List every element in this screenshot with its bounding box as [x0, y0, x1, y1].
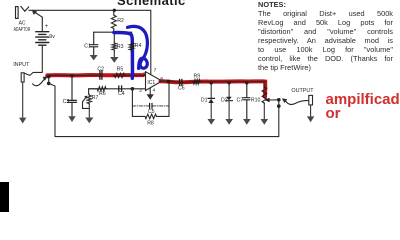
bypass wire (bottom loop to output switch) — [49, 83, 279, 136]
output jack ground — [307, 105, 314, 122]
resistor R3 — [112, 42, 116, 51]
resistor R2 — [111, 14, 116, 29]
node output feedback tap — [167, 80, 171, 84]
black corner block bottom-left — [0, 182, 9, 213]
svg-text:C3: C3 — [63, 99, 70, 105]
wire pin 2 — [89, 88, 146, 90]
diode D2 — [226, 83, 233, 119]
capacitor C1 — [90, 32, 98, 55]
battery B1 9v — [36, 17, 49, 45]
svg-text:C4: C4 — [118, 91, 125, 97]
svg-text:INPUT: INPUT — [13, 62, 30, 68]
svg-text:R9: R9 — [194, 73, 201, 79]
op-amp IC1 — [146, 72, 163, 91]
svg-text:C6: C6 — [178, 85, 185, 91]
wire op-amp output run to volume pot — [162, 81, 266, 82]
svg-text:+: + — [45, 24, 49, 30]
svg-text:C1: C1 — [84, 44, 91, 50]
ground C1 — [90, 55, 98, 60]
wire R2 to bias node — [113, 30, 115, 33]
resistor R9 — [193, 80, 201, 84]
wire bias node to R4 — [131, 32, 133, 42]
wire R3 to ground — [113, 51, 115, 57]
red highlight output signal wire — [161, 81, 266, 97]
svg-text:D1: D1 — [201, 98, 208, 104]
svg-text:R6: R6 — [99, 91, 106, 97]
wire R4 to pin3 node — [131, 51, 133, 75]
node C7 tap — [245, 81, 248, 84]
capacitor C6 — [180, 79, 182, 85]
wire R5 to pin 3 — [126, 74, 146, 76]
ground pin 4 — [147, 94, 154, 100]
AC adaptor jack — [16, 6, 29, 18]
feedback loop wires — [132, 89, 144, 117]
resistor R4 — [129, 42, 133, 51]
red annotation text amplificador — [326, 93, 400, 121]
potentiometer R10 — [262, 82, 279, 119]
blue annotation stroke bias-to-pin3 — [114, 33, 133, 79]
wire node to R3 — [113, 32, 115, 42]
svg-text:R10: R10 — [251, 97, 261, 103]
svg-text:9v: 9v — [49, 34, 55, 40]
dashed optional C5 branch — [132, 105, 169, 107]
svg-text:C2: C2 — [97, 67, 104, 73]
potentiometer R7 — [83, 94, 92, 117]
wire R6 to R7 — [89, 89, 97, 95]
capacitor C7 — [243, 83, 250, 119]
wire rail to R2 — [113, 10, 115, 14]
node feedback tap pin2 — [131, 87, 135, 91]
output jack J2 — [309, 95, 313, 105]
input jack ground — [19, 82, 26, 124]
svg-text:OUTPUT: OUTPUT — [291, 88, 314, 94]
node C3 tap — [70, 74, 73, 77]
node D1 tap — [210, 81, 213, 84]
node bias (wire C1 / R3 / R4) — [94, 31, 132, 33]
ground R3 — [110, 57, 118, 63]
input jack J1 — [21, 73, 24, 82]
svg-text:R3: R3 — [117, 44, 124, 50]
svg-text:R2: R2 — [117, 18, 124, 24]
node D2 tap — [227, 81, 230, 84]
label AC ADAPTOR — [14, 20, 31, 33]
diode D1 — [208, 83, 215, 119]
svg-text:IC1: IC1 — [147, 80, 155, 86]
battery minus wire to input jack — [25, 45, 43, 75]
input bypass switch arm — [33, 77, 48, 86]
node input (junction dots) — [47, 75, 51, 79]
pin 4 wire — [149, 88, 151, 94]
svg-text:6: 6 — [160, 76, 163, 82]
node output switch (junction dots) — [277, 98, 281, 102]
svg-text:R7: R7 — [92, 95, 99, 101]
ground C3 — [68, 116, 75, 122]
svg-text:R5: R5 — [117, 67, 124, 73]
ground D2 — [225, 119, 233, 125]
ground C7 — [243, 119, 251, 125]
output switch arm — [282, 99, 308, 105]
resistor R8 — [144, 114, 157, 119]
ground R10 — [261, 119, 269, 125]
svg-text:AC: AC — [19, 20, 26, 26]
svg-text:C7: C7 — [237, 98, 244, 104]
svg-text:3: 3 — [143, 71, 146, 77]
notes text block — [258, 0, 393, 72]
wire input node to C2 (thin, under red) — [49, 74, 99, 76]
svg-text:R8: R8 — [147, 120, 154, 126]
svg-text:R4: R4 — [135, 43, 142, 49]
blue annotation stroke loop around R4 — [128, 26, 148, 68]
node V+ rail R2 tap — [113, 9, 116, 12]
capacitor C5 — [150, 103, 152, 108]
svg-text:D2: D2 — [221, 98, 228, 104]
red highlight input signal wire — [47, 73, 143, 77]
capacitor C3 — [68, 76, 77, 116]
svg-text:C5: C5 — [148, 109, 155, 115]
ground D1 — [208, 119, 216, 125]
resistor R6 — [96, 87, 106, 91]
svg-text:4: 4 — [153, 87, 156, 93]
V+ rail wire (top) down to pin 7 — [29, 10, 151, 74]
capacitor C2 — [100, 71, 102, 79]
svg-text:ADAPTOR: ADAPTOR — [14, 27, 31, 33]
battery clip arrow — [32, 10, 42, 17]
title Schematic (clipped at top) — [117, 0, 186, 8]
svg-text:7: 7 — [154, 67, 157, 73]
capacitor C4 — [119, 86, 122, 91]
ground R7 — [85, 118, 93, 124]
resistor R5 — [114, 73, 126, 77]
